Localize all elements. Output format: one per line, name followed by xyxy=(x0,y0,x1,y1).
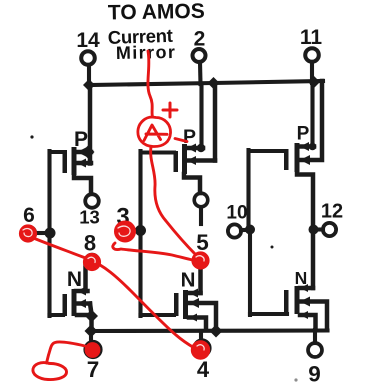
svg-text:5: 5 xyxy=(196,230,209,255)
svg-text:N: N xyxy=(67,268,82,291)
svg-text:N: N xyxy=(295,268,308,288)
svg-text:2: 2 xyxy=(194,28,206,51)
svg-text:10: 10 xyxy=(226,203,247,224)
svg-text:12: 12 xyxy=(321,201,343,223)
svg-text:4: 4 xyxy=(197,357,210,382)
svg-text:TO AMOS: TO AMOS xyxy=(108,0,205,24)
svg-text:N: N xyxy=(181,269,196,292)
svg-text:P: P xyxy=(183,126,196,148)
svg-text:8: 8 xyxy=(84,231,96,256)
svg-text:P: P xyxy=(297,124,310,145)
svg-text:9: 9 xyxy=(308,362,321,385)
svg-text:6: 6 xyxy=(23,204,35,227)
svg-text:P: P xyxy=(74,128,88,151)
svg-text:14: 14 xyxy=(76,29,100,52)
svg-text:Mirror: Mirror xyxy=(116,42,177,63)
svg-text:13: 13 xyxy=(79,207,100,228)
svg-text:7: 7 xyxy=(87,357,100,382)
svg-text:11: 11 xyxy=(300,26,323,49)
